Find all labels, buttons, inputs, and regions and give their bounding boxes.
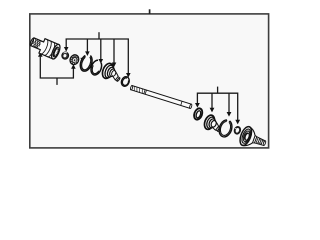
arrow up to ring2	[71, 64, 76, 69]
arrow down to circlip	[235, 120, 240, 125]
left bracket tick down	[56, 78, 58, 85]
right bracket drop 3	[228, 93, 230, 112]
housing body bands	[41, 39, 57, 57]
top bracket horizontal	[66, 39, 128, 73]
seal ring 7	[193, 107, 204, 120]
arrow up to housing	[38, 52, 43, 57]
clamp ring 6	[120, 76, 130, 88]
right bracket tick up	[217, 87, 219, 94]
arrow down to left boot	[112, 63, 117, 68]
inner CV joint housing	[28, 34, 62, 60]
arrow down to ring6	[126, 73, 131, 78]
housing open face	[50, 43, 62, 60]
top bracket drop 4	[113, 39, 115, 63]
axle shaft	[130, 85, 192, 108]
small clamp ring 4	[89, 59, 103, 77]
left bracket	[40, 57, 73, 78]
left CV boot 5	[100, 62, 120, 82]
right bracket drop 2	[211, 93, 213, 108]
top bracket drop 2	[86, 39, 88, 52]
arrow down to small clamp	[99, 59, 104, 64]
arrow down to ring7	[195, 103, 200, 108]
right CV boot 8	[203, 114, 221, 132]
top bracket drop 3	[100, 39, 102, 59]
outer CV joint 11	[238, 125, 269, 153]
washer ring 1	[61, 51, 70, 60]
circlip 10	[234, 126, 241, 134]
arrow down to washer	[64, 47, 69, 52]
arrow down to right boot	[210, 108, 215, 113]
stub shaft	[252, 136, 257, 144]
callout tick top	[149, 9, 151, 14]
spline crosshatch on stub	[31, 38, 42, 49]
boot band clamp 3	[77, 53, 94, 73]
arrow down to big clamp	[227, 112, 232, 117]
arrow down to boot band	[85, 51, 90, 56]
right bracket	[197, 93, 237, 120]
toothed ring 2	[68, 53, 80, 66]
top bracket tick up	[98, 32, 100, 39]
big boot clamp 9	[217, 118, 234, 138]
